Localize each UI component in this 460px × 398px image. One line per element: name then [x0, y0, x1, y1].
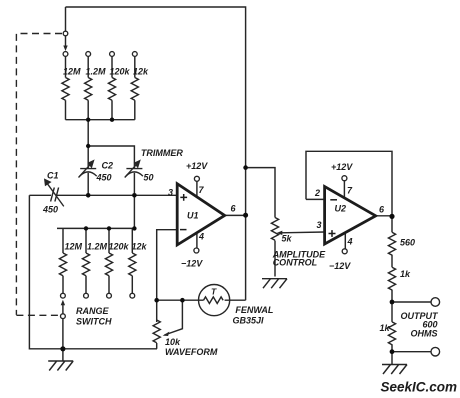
svg-text:WAVEFORM: WAVEFORM	[165, 347, 218, 357]
svg-text:FENWAL: FENWAL	[235, 305, 273, 315]
svg-text:−12V: −12V	[329, 261, 351, 271]
svg-text:50: 50	[144, 173, 154, 183]
svg-text:C1: C1	[47, 171, 59, 181]
svg-text:560: 560	[400, 238, 415, 248]
svg-text:U1: U1	[187, 211, 199, 221]
svg-text:T: T	[211, 287, 217, 297]
svg-text:10k: 10k	[165, 337, 181, 347]
svg-text:6: 6	[379, 205, 385, 215]
svg-text:OHMS: OHMS	[411, 328, 438, 338]
svg-text:+12V: +12V	[186, 161, 208, 171]
svg-text:1.2M: 1.2M	[87, 241, 108, 251]
svg-text:7: 7	[347, 186, 353, 196]
svg-text:5k: 5k	[282, 234, 293, 244]
svg-text:2: 2	[314, 188, 320, 198]
svg-text:GB35JI: GB35JI	[233, 316, 265, 326]
svg-text:12M: 12M	[63, 67, 81, 77]
svg-text:SWITCH: SWITCH	[76, 317, 112, 327]
svg-text:450: 450	[96, 173, 112, 183]
svg-text:U2: U2	[335, 204, 347, 214]
svg-text:12k: 12k	[133, 67, 149, 77]
svg-text:12k: 12k	[132, 241, 148, 251]
svg-text:CONTROL: CONTROL	[273, 258, 318, 268]
svg-text:TRIMMER: TRIMMER	[141, 148, 183, 158]
svg-text:120k: 120k	[110, 67, 131, 77]
svg-text:1.2M: 1.2M	[86, 67, 107, 77]
svg-text:4: 4	[198, 232, 204, 242]
svg-text:+12V: +12V	[331, 162, 353, 172]
svg-text:3: 3	[168, 187, 173, 197]
svg-text:C2: C2	[102, 161, 114, 171]
svg-text:450: 450	[42, 205, 58, 215]
svg-text:3: 3	[317, 220, 322, 230]
svg-text:1k: 1k	[380, 323, 391, 333]
svg-text:1k: 1k	[400, 269, 411, 279]
svg-text:RANGE: RANGE	[76, 306, 109, 316]
svg-text:7: 7	[199, 185, 205, 195]
svg-text:12M: 12M	[65, 241, 83, 251]
svg-text:4: 4	[347, 237, 353, 247]
svg-text:−12V: −12V	[181, 259, 203, 269]
svg-text:120k: 120k	[109, 241, 130, 251]
svg-text:SeekIC.com: SeekIC.com	[381, 380, 458, 395]
svg-text:6: 6	[231, 204, 237, 214]
